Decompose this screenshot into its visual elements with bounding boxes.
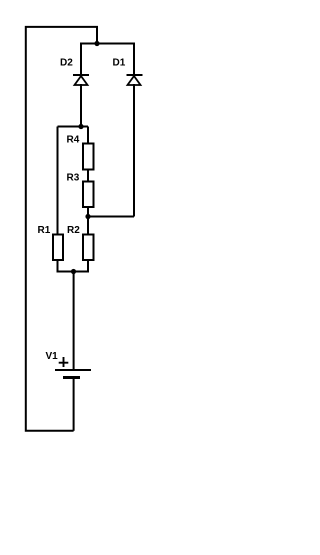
svg-text:D2: D2	[60, 58, 73, 69]
svg-text:R4: R4	[67, 135, 80, 146]
svg-text:R2: R2	[67, 225, 80, 236]
svg-text:R1: R1	[38, 225, 51, 236]
svg-text:R3: R3	[67, 173, 80, 184]
svg-text:D1: D1	[113, 58, 126, 69]
svg-text:V1: V1	[46, 351, 59, 362]
